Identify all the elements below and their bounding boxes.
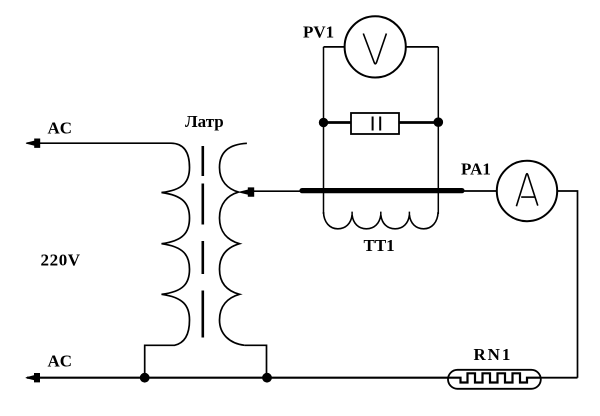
wire: left winding bottom to bottom wire	[145, 345, 165, 377]
TT1 secondary cusp tips	[352, 212, 409, 216]
vertical wire left (voltmeter/fuse to TT1 secondary)	[323, 47, 325, 214]
svg-text:TT1: TT1	[364, 236, 395, 255]
voltmeter PV1 circle	[345, 16, 406, 77]
svg-text:Латр: Латр	[185, 112, 224, 131]
transformer core dash 2	[202, 184, 205, 225]
transformer core dash 4	[202, 291, 205, 338]
svg-text:RN1: RN1	[474, 345, 513, 364]
TT1 secondary winding	[324, 212, 439, 229]
TT1 primary bar (thick)	[302, 188, 462, 193]
svg-text:PA1: PA1	[461, 160, 491, 179]
resistor RN1 meander element	[448, 373, 541, 382]
wire: ammeter right to corner and down	[557, 191, 577, 378]
wiper arrow wire (to TT1 bar)	[252, 190, 301, 192]
junction dot: right winding bottom	[263, 373, 272, 382]
wire: voltmeter right lead	[406, 46, 439, 48]
wire: voltmeter left lead	[324, 46, 345, 48]
wire: top AC line	[27, 142, 171, 144]
arrowhead: wiper arrow	[239, 188, 254, 197]
wire: bottom AC line	[27, 377, 449, 379]
voltmeter V glyph	[363, 34, 386, 64]
arrowhead: top AC arrow	[26, 139, 40, 148]
junction dot left (fuse row)	[319, 118, 327, 126]
svg-text:220V: 220V	[41, 251, 81, 270]
autotransformer left winding	[162, 143, 190, 345]
wire: right winding bottom to bottom wire	[245, 345, 267, 377]
transformer core dash 1	[202, 146, 205, 176]
junction dot: left winding bottom	[140, 373, 149, 382]
transformer core dash 3	[202, 241, 205, 274]
arrowhead: bottom AC arrow	[26, 373, 40, 382]
resistor RN1 stadium body	[448, 370, 541, 389]
autotransformer right winding	[220, 143, 247, 345]
ammeter PA1 circle	[497, 161, 557, 221]
fuse FU box	[351, 113, 399, 134]
fuse bars ||	[372, 117, 374, 131]
ammeter A glyph	[516, 174, 537, 206]
svg-text:PV1: PV1	[303, 23, 334, 42]
wire: bar to ammeter	[462, 190, 497, 192]
wire: left dot to fuse	[324, 121, 352, 124]
vertical wire right	[437, 47, 439, 214]
wire: RN1 right to corner	[541, 377, 578, 379]
svg-text:AC: AC	[48, 119, 73, 138]
svg-text:AC: AC	[48, 351, 73, 370]
junction dot right (fuse row)	[434, 118, 443, 127]
wire: fuse to right dot	[399, 121, 438, 124]
